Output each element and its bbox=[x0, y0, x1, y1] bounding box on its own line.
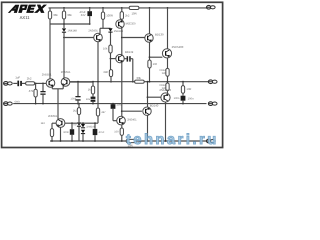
resistor R12 bbox=[77, 108, 80, 115]
wire R14 to rail bbox=[51, 137, 53, 141]
wire +V rail right segment bbox=[139, 7, 207, 9]
transistor Q1 bbox=[46, 79, 55, 88]
svg-text:2k2: 2k2 bbox=[73, 109, 78, 112]
svg-text:100n: 100n bbox=[174, 97, 180, 100]
wire C4 right stub bbox=[131, 58, 133, 60]
wire Q6 down bbox=[121, 63, 123, 117]
wire R6 to tap bbox=[110, 53, 112, 59]
APEX logo bbox=[8, 5, 47, 13]
wire R7 to mid bbox=[110, 77, 112, 82]
terminal input ground bbox=[4, 102, 13, 106]
svg-text:BD139: BD139 bbox=[125, 51, 134, 54]
transistor Q3 bbox=[94, 33, 103, 42]
node rail R4 bbox=[63, 7, 65, 9]
label R13 bbox=[101, 111, 106, 114]
label C1 1uF bbox=[15, 75, 20, 79]
transistor Q8 tail source bbox=[56, 119, 65, 128]
node Q8e rail bbox=[60, 140, 62, 142]
wire R13 to bias line bbox=[97, 116, 99, 123]
node zobel top bbox=[182, 81, 184, 83]
label Q7 2N5401 bbox=[127, 119, 137, 122]
wire R8 top bbox=[121, 8, 123, 12]
wire C2 to ground bbox=[42, 95, 44, 104]
svg-text:100n: 100n bbox=[70, 97, 76, 100]
transistor Q2 bbox=[61, 78, 70, 87]
capacitor C6 100n bbox=[75, 96, 80, 101]
wire Q9 collector bbox=[149, 8, 151, 34]
node Q10 base tap bbox=[149, 56, 151, 58]
resistor R1 2k2 bbox=[26, 82, 35, 85]
wire D3 to rail bbox=[78, 126, 80, 141]
label R8 2k2 bbox=[125, 14, 130, 17]
label R17b 0R22 5W bbox=[159, 84, 166, 90]
wire R2 drop bbox=[35, 83, 37, 89]
wire C5 to ground bbox=[92, 102, 94, 104]
node Q11c rail bbox=[165, 140, 167, 142]
node C8 rail bbox=[94, 140, 96, 142]
label Q12 BD140 bbox=[150, 103, 159, 107]
wire D5 to rail bbox=[82, 134, 84, 141]
label R12 2k2 bbox=[73, 109, 78, 112]
svg-text:1N4148: 1N4148 bbox=[86, 126, 96, 129]
transistor Q5 VAS top bbox=[116, 20, 124, 28]
label R17 10R bbox=[132, 11, 137, 15]
wire C7 drop bbox=[71, 123, 73, 129]
label D3 bbox=[73, 124, 76, 127]
svg-text:33k: 33k bbox=[67, 13, 72, 17]
wire collector load bus bbox=[50, 23, 90, 25]
terminal speaker ground bbox=[208, 102, 217, 106]
wire Q2 emitter bbox=[62, 86, 64, 89]
svg-text:22u: 22u bbox=[86, 98, 91, 101]
border frame bbox=[2, 2, 223, 147]
label C5 22uF bbox=[86, 98, 91, 101]
node mid cap bbox=[77, 81, 79, 83]
AX11 model label bbox=[20, 15, 31, 20]
resistor R6 10k bbox=[109, 45, 112, 53]
resistor R20 10R bbox=[181, 86, 184, 94]
wire C9 drop bbox=[112, 103, 114, 106]
wire C8 drop bbox=[94, 123, 96, 129]
svg-text:BD139: BD139 bbox=[155, 32, 164, 36]
wire Q10 collector bbox=[167, 8, 169, 49]
resistor R8 2k2 bbox=[120, 12, 123, 20]
label C6 100n bbox=[70, 97, 76, 100]
label C9 100p bbox=[116, 104, 122, 107]
label R9 100R bbox=[114, 130, 119, 133]
wire R2 to ground bbox=[35, 97, 37, 104]
wire fb drop bbox=[92, 82, 94, 86]
wire zobel drop bbox=[182, 82, 184, 86]
wire C6 drop bbox=[77, 82, 79, 96]
node rail R8 bbox=[121, 7, 123, 9]
label R5 100R bbox=[106, 13, 113, 17]
node R9 rail bbox=[121, 140, 123, 142]
wire R3 bottom bbox=[49, 19, 51, 24]
svg-text:tehnari.ru: tehnari.ru bbox=[126, 132, 219, 148]
wire Q2 collector bbox=[63, 38, 65, 79]
wire C10 to ground bbox=[182, 101, 184, 104]
svg-text:AX11: AX11 bbox=[20, 15, 31, 20]
node Q12c rail bbox=[147, 140, 149, 142]
wire Q3 emitter bbox=[97, 42, 99, 82]
svg-text:10R: 10R bbox=[186, 88, 191, 91]
wire Q8 base jog bbox=[52, 123, 56, 128]
node rail Q10c bbox=[167, 7, 169, 9]
label C10 100n bbox=[188, 98, 194, 101]
diode D3 bbox=[77, 122, 81, 126]
capacitor C7 100n bbox=[70, 129, 74, 135]
label R4 33k bbox=[67, 13, 72, 17]
wire output line right bbox=[144, 81, 208, 83]
node output emitters bbox=[167, 81, 169, 83]
wire R7 top bbox=[110, 59, 112, 70]
label Q9 BD139 bbox=[155, 32, 164, 36]
wire Q3 base line bbox=[64, 37, 94, 39]
wire C2 drop bbox=[42, 83, 44, 91]
svg-text:2k2: 2k2 bbox=[125, 14, 130, 17]
label Q11 2SA1943 bbox=[159, 88, 171, 92]
diode D1 bbox=[62, 28, 66, 32]
node lower driver base tap bbox=[121, 110, 123, 112]
svg-text:2SA1943: 2SA1943 bbox=[159, 88, 171, 92]
wire Q10 base line bbox=[150, 56, 163, 58]
wire Q11 base line bbox=[148, 96, 161, 98]
wire R5 down bbox=[102, 19, 104, 28]
node input divider bbox=[35, 83, 44, 85]
wire C3 bottom bbox=[89, 16, 91, 24]
wire Q3e col down bbox=[97, 82, 99, 108]
capacitor C1 1uF bbox=[17, 81, 22, 87]
wire Q10 emitter bbox=[167, 58, 169, 69]
svg-text:47k: 47k bbox=[29, 89, 34, 93]
wire Q7 emitter bbox=[121, 125, 123, 128]
wire R17b to Q11 bbox=[167, 91, 169, 94]
wire C9 to Q7 base bbox=[113, 109, 117, 121]
svg-text:2k2: 2k2 bbox=[27, 76, 32, 80]
label R20 10R bbox=[186, 88, 191, 91]
label C3 47uF 63V bbox=[79, 11, 85, 17]
wire R4 bottom bbox=[63, 19, 65, 28]
node Q3 base tap bbox=[63, 37, 65, 39]
wire C4 left stub bbox=[124, 58, 126, 60]
wire ground line bbox=[13, 103, 206, 105]
svg-text:33k: 33k bbox=[136, 76, 141, 80]
wire Q12 collector down bbox=[147, 115, 149, 141]
label Q3 2N5401 bbox=[88, 29, 98, 32]
resistor R17 (rail 10R) bbox=[129, 6, 139, 9]
wire C6 to ground bbox=[77, 101, 79, 104]
wire -V rail right segment bbox=[136, 140, 207, 142]
wire R4 top bbox=[63, 8, 65, 11]
terminal -V supply bbox=[207, 139, 216, 143]
resistor R18 (rail 10R) bbox=[126, 139, 136, 142]
transistor Q9 driver bbox=[145, 34, 153, 42]
wire R8 to Q5 bbox=[121, 19, 123, 20]
capacitor C5 22uF bbox=[91, 97, 96, 102]
label R6 10k bbox=[103, 48, 108, 51]
node base line taps bbox=[71, 122, 96, 124]
wire Q8 emitter bbox=[60, 127, 62, 141]
resistor R2 47k bbox=[34, 89, 37, 97]
label C10 voltage bbox=[174, 97, 180, 100]
resistor R13 bbox=[96, 108, 99, 116]
capacitor C9 100p bbox=[111, 104, 116, 109]
capacitor C10 100n bbox=[181, 96, 186, 101]
label R15 100R bbox=[153, 63, 158, 66]
label R1 2k2 bbox=[27, 76, 32, 80]
svg-text:100R: 100R bbox=[106, 13, 113, 17]
resistor R14 bbox=[50, 129, 53, 137]
terminal +V supply bbox=[207, 6, 216, 10]
svg-text:1N4148: 1N4148 bbox=[67, 30, 77, 33]
label D1 1N4148 bbox=[67, 30, 77, 33]
label Q1 2N5551 bbox=[42, 73, 52, 77]
svg-text:2SC5200: 2SC5200 bbox=[172, 45, 184, 49]
svg-text:1k2: 1k2 bbox=[41, 122, 46, 125]
wire Q8 base line bbox=[65, 122, 98, 124]
wire lower driver base line bbox=[122, 110, 142, 112]
wire tail bbox=[57, 89, 59, 119]
node R15 out bbox=[149, 81, 151, 83]
label Q10 2SC5200 bbox=[172, 45, 184, 49]
svg-text:BD140: BD140 bbox=[150, 103, 159, 107]
transistor Q7 VAS bottom bbox=[117, 116, 126, 125]
node R7 mid bbox=[110, 81, 112, 83]
label Q5 MJE350 bbox=[126, 23, 136, 26]
node C7 rail bbox=[71, 140, 73, 142]
label C8 47uF bbox=[99, 131, 105, 134]
wire R15 to output bbox=[149, 68, 151, 82]
wire Q1 collector bbox=[49, 24, 51, 79]
node bus junctions bbox=[63, 23, 91, 25]
svg-text:10R: 10R bbox=[132, 11, 137, 15]
label C7 100n bbox=[63, 131, 69, 134]
wire -V rail left segment bbox=[50, 140, 126, 142]
svg-text:100p: 100p bbox=[116, 104, 122, 107]
svg-text:2N5401: 2N5401 bbox=[88, 29, 98, 32]
resistor R17b 0R22 bbox=[166, 83, 169, 91]
node Q11 base tap bbox=[147, 96, 149, 98]
wire C1 to R1 bbox=[22, 82, 26, 84]
node Q3e mid bbox=[97, 81, 99, 83]
wire input to C1 bbox=[13, 82, 17, 84]
svg-text:33k: 33k bbox=[53, 13, 58, 17]
node C4 output bbox=[132, 81, 134, 83]
svg-text:2N5401: 2N5401 bbox=[127, 119, 137, 122]
wire D2 to R6 bbox=[110, 33, 112, 46]
diode D4 bbox=[81, 124, 85, 128]
svg-text:100n: 100n bbox=[63, 131, 69, 134]
label Q8 2N5551 bbox=[48, 115, 58, 118]
wire R20 to C10 bbox=[182, 93, 184, 95]
wire R1 to Q1 base bbox=[35, 82, 47, 84]
resistor R10 33k feedback bbox=[135, 80, 145, 83]
svg-text:100: 100 bbox=[114, 130, 119, 133]
label ground net bbox=[15, 100, 21, 103]
resistor R16 0R22 bbox=[166, 68, 169, 76]
label R3 33k bbox=[53, 13, 58, 17]
label R7 680R bbox=[104, 71, 109, 74]
label Q6 bias bbox=[125, 51, 134, 54]
wire C4 to output line bbox=[132, 59, 134, 82]
wire R11 to C5 bbox=[92, 94, 94, 97]
node driver base tap upper bbox=[121, 37, 123, 39]
svg-text:100n: 100n bbox=[188, 98, 194, 101]
wire bias jog bbox=[100, 27, 111, 29]
svg-text:0V: 0V bbox=[73, 124, 76, 127]
svg-text:100: 100 bbox=[153, 63, 158, 66]
wire R5 top bbox=[102, 8, 104, 12]
resistor R7 680R bbox=[109, 70, 112, 77]
node Q4 base tap bbox=[110, 58, 112, 60]
wire upper driver base line bbox=[122, 37, 145, 39]
wire Q9 emitter bbox=[149, 42, 151, 60]
resistor R15 1k bbox=[148, 60, 151, 68]
node D5 rail bbox=[82, 140, 84, 142]
wire D1 to base line bbox=[63, 33, 65, 38]
wire Q12 emitter col bbox=[147, 82, 149, 108]
svg-text:2N5551: 2N5551 bbox=[48, 115, 58, 118]
node fb bbox=[92, 81, 94, 83]
capacitor C2 input bbox=[40, 91, 45, 95]
terminal output bbox=[208, 80, 217, 84]
diode D2 bbox=[108, 28, 112, 32]
label R11 1k bbox=[88, 89, 91, 92]
node ground junctions bbox=[35, 103, 184, 105]
wire emitter join bbox=[52, 88, 63, 90]
wire Q4 base line bbox=[111, 58, 117, 60]
resistor R11 1k bbox=[91, 86, 94, 94]
wire Q2 base feedback bbox=[70, 81, 93, 83]
label R10 33k bbox=[136, 76, 141, 80]
wire output line left bbox=[70, 81, 135, 83]
wire R9 to rail bbox=[121, 135, 123, 141]
node rail R5 bbox=[102, 7, 104, 9]
node R14 rail bbox=[51, 140, 53, 142]
svg-text:2N5551: 2N5551 bbox=[61, 70, 71, 74]
wire C7 to rail bbox=[71, 135, 73, 141]
diode D5 bbox=[81, 130, 85, 134]
label D2 1N4148 bbox=[114, 30, 124, 33]
svg-text:10k: 10k bbox=[103, 48, 108, 51]
wire Q3 collector stub bbox=[99, 28, 101, 33]
node rail C3 bbox=[89, 7, 91, 9]
wire C3 top bbox=[89, 8, 91, 11]
label R14 1k bbox=[41, 122, 46, 125]
wire Q5 emitter down bbox=[121, 28, 123, 55]
wire Q1 emitter bbox=[51, 87, 53, 89]
svg-text:GND: GND bbox=[15, 100, 21, 103]
wire Q11 collector bbox=[165, 102, 167, 141]
wire R16 to out node bbox=[167, 76, 169, 83]
resistor R5 100R bbox=[101, 12, 104, 19]
resistor R9 bbox=[120, 128, 123, 135]
resistor R3 33k bbox=[48, 11, 51, 19]
label Q2 2N5551 bbox=[61, 70, 71, 74]
wire R3 top bbox=[49, 8, 51, 11]
transistor Q11 output PNP bbox=[161, 93, 170, 102]
terminal input signal bbox=[4, 82, 13, 86]
capacitor C4 comp bbox=[127, 56, 131, 61]
capacitor C8 47uF bbox=[93, 129, 98, 135]
wire C8 to rail bbox=[94, 135, 96, 141]
svg-text:63V: 63V bbox=[81, 14, 86, 17]
transistor Q6 bias spreader bbox=[116, 54, 124, 62]
transistor Q10 output NPN bbox=[162, 49, 171, 58]
svg-text:47uF: 47uF bbox=[99, 131, 105, 134]
label R16 0R22 5W bbox=[159, 69, 166, 75]
resistor R4 33k bbox=[62, 11, 65, 19]
svg-text:5W: 5W bbox=[162, 72, 166, 75]
label D4 D5 1N4148 bbox=[86, 126, 96, 129]
svg-text:MJE350: MJE350 bbox=[126, 23, 136, 26]
wire R12 down bbox=[78, 115, 80, 123]
wire R12 drop bbox=[78, 104, 80, 108]
transistor Q12 driver bbox=[143, 107, 151, 115]
watermark tehnari.ru bbox=[126, 132, 219, 148]
node Q12e out bbox=[147, 81, 149, 83]
wire +V rail left segment bbox=[49, 7, 130, 9]
label R2 47k bbox=[29, 89, 34, 93]
node rail Q9 bbox=[149, 7, 151, 9]
label R18 10R bbox=[128, 143, 133, 147]
capacitor C3 47uF bbox=[87, 11, 92, 16]
svg-text:4k7: 4k7 bbox=[101, 111, 106, 114]
svg-text:680: 680 bbox=[104, 71, 109, 74]
svg-text:1uF: 1uF bbox=[15, 75, 20, 79]
